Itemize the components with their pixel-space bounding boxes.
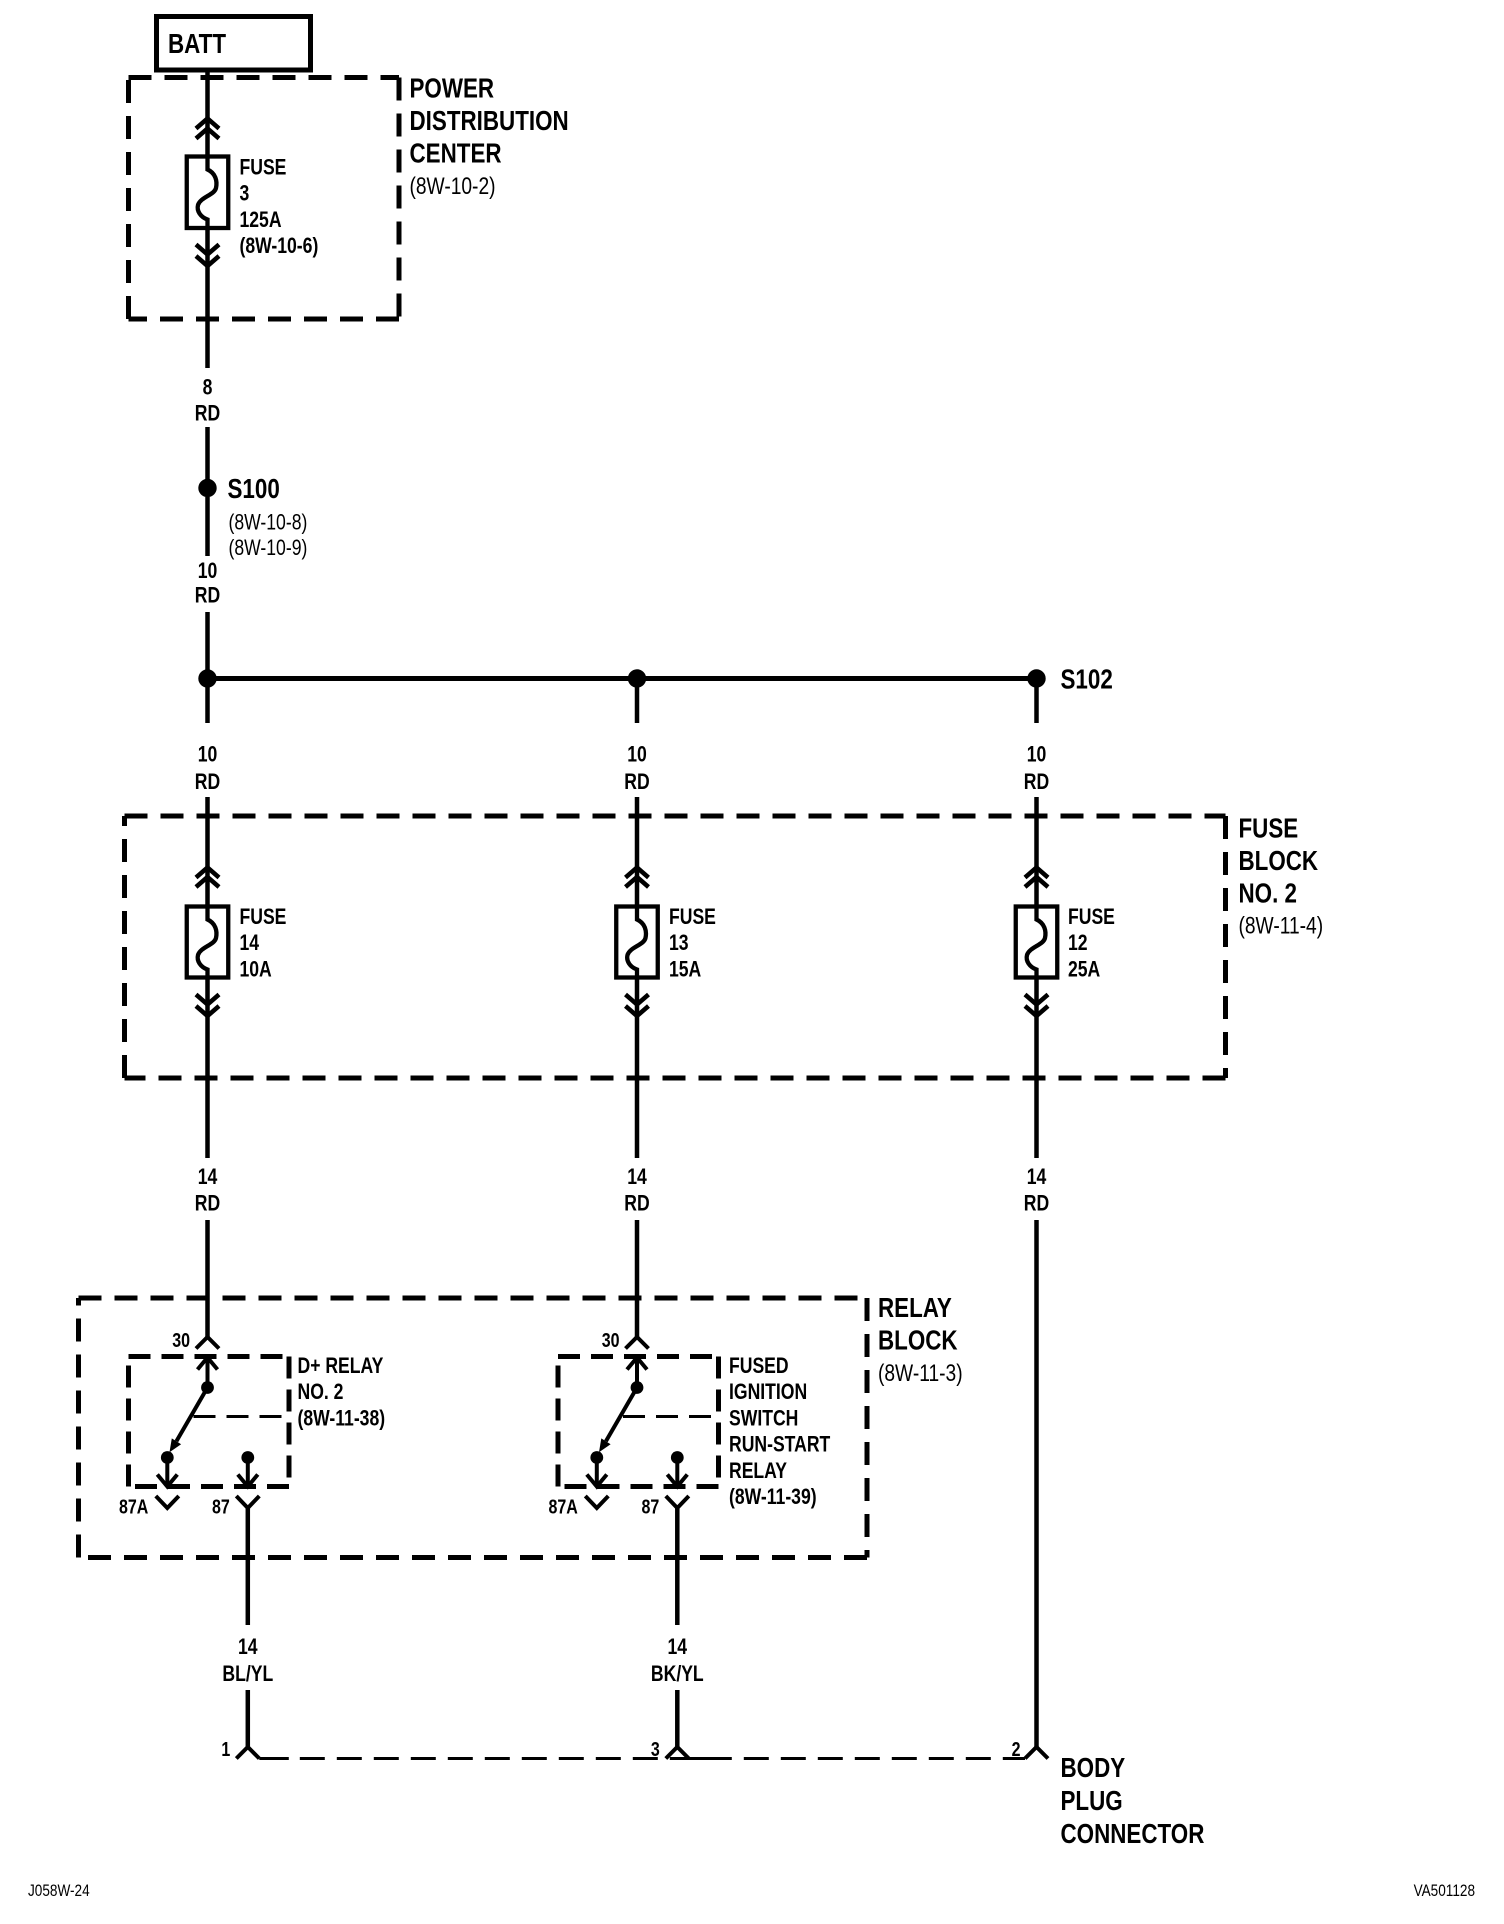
svg-text:RUN-START: RUN-START	[729, 1433, 830, 1457]
wire S100 to bus (10 RD)	[205, 497, 210, 556]
svg-text:FUSE: FUSE	[669, 905, 716, 929]
svg-text:14: 14	[240, 931, 260, 955]
svg-text:NO. 2: NO. 2	[1239, 878, 1297, 909]
body plug connector dashed outline	[259, 1757, 1025, 1760]
contact 87A node	[590, 1451, 603, 1464]
wire	[246, 1690, 251, 1747]
svg-text:8: 8	[203, 376, 213, 400]
fuse 13 15A	[616, 907, 658, 978]
relay switch arm (to 87A)	[170, 1388, 208, 1453]
wire	[205, 427, 210, 480]
connector chevrons into fuse block	[626, 868, 649, 888]
pin 30 connector chevron	[196, 1337, 219, 1349]
pin 87 arrow out	[667, 1458, 687, 1487]
contact 87A node	[161, 1451, 174, 1464]
svg-text:87: 87	[212, 1496, 230, 1518]
fuse block no. 2	[125, 816, 1226, 1078]
svg-text:15A: 15A	[669, 958, 701, 982]
label FUSE 12 25A	[1068, 905, 1115, 982]
pin 87 connector chevron	[236, 1496, 259, 1508]
label FUSE 3 125A (8W-10-6)	[240, 156, 319, 259]
svg-text:FUSE: FUSE	[240, 156, 287, 180]
svg-text:RELAY: RELAY	[878, 1293, 952, 1324]
fuse 14 10A	[187, 907, 229, 978]
svg-text:RELAY: RELAY	[729, 1459, 787, 1483]
connector chevrons into PDC	[196, 119, 219, 139]
connector chevrons into fuse block	[1025, 868, 1048, 888]
wire	[1034, 797, 1039, 907]
wire label 14 BL/YL	[222, 1635, 273, 1686]
connector chevrons out of fuse block	[626, 995, 649, 1017]
svg-text:10: 10	[198, 559, 218, 583]
body plug connector pin 3	[651, 1738, 689, 1760]
svg-text:14: 14	[627, 1165, 647, 1189]
label RELAY BLOCK (8W-11-3)	[878, 1293, 963, 1387]
svg-text:D+ RELAY: D+ RELAY	[298, 1354, 384, 1378]
svg-text:1: 1	[221, 1738, 230, 1760]
svg-text:SWITCH: SWITCH	[729, 1407, 798, 1431]
label FUSE 14 10A	[240, 905, 287, 982]
connector BATT (battery feed)	[157, 17, 311, 71]
svg-text:PLUG: PLUG	[1061, 1786, 1123, 1817]
svg-text:87A: 87A	[119, 1496, 148, 1518]
svg-text:14: 14	[198, 1165, 218, 1189]
svg-text:BLOCK: BLOCK	[1239, 846, 1319, 877]
svg-text:RD: RD	[195, 584, 220, 608]
svg-text:25A: 25A	[1068, 958, 1100, 982]
wire label 10 RD	[195, 743, 220, 795]
svg-text:RD: RD	[195, 1192, 220, 1216]
contact 87 node	[671, 1451, 684, 1464]
svg-text:125A: 125A	[240, 208, 282, 232]
label FUSE 13 15A	[669, 905, 716, 982]
svg-text:(8W-11-38): (8W-11-38)	[298, 1407, 386, 1431]
svg-text:10: 10	[1027, 743, 1047, 767]
splice S100	[198, 479, 216, 497]
svg-text:CONNECTOR: CONNECTOR	[1061, 1819, 1205, 1850]
svg-text:(8W-10-6): (8W-10-6)	[240, 234, 319, 258]
svg-text:87A: 87A	[548, 1496, 577, 1518]
wire label 14 BK/YL	[651, 1635, 704, 1686]
wire	[635, 797, 640, 907]
fuse 12 25A	[1016, 907, 1058, 978]
svg-text:3: 3	[240, 182, 250, 206]
svg-text:RD: RD	[1024, 1192, 1049, 1216]
svg-text:CENTER: CENTER	[410, 138, 502, 169]
body plug connector pin 1	[221, 1738, 259, 1760]
svg-text:FUSE: FUSE	[240, 905, 287, 929]
wire label 10 RD	[624, 743, 649, 795]
svg-text:10A: 10A	[240, 958, 272, 982]
relay common node	[631, 1381, 644, 1394]
wire label 14 RD	[624, 1165, 649, 1216]
wire label 10 RD	[195, 559, 220, 608]
pin 87A arrow out	[587, 1458, 607, 1487]
wire label 10 RD	[1024, 743, 1049, 795]
wire fuse 3 to S100 (8 RD)	[205, 228, 210, 368]
wire to relay 1 pin 30	[205, 1220, 210, 1337]
label BODY PLUG CONNECTOR	[1061, 1753, 1205, 1850]
wire label 14 RD	[1024, 1165, 1049, 1216]
wire to relay 2 pin 30	[635, 1220, 640, 1337]
wire bus to fuse block (middle, 10 RD)	[635, 687, 640, 723]
svg-text:10: 10	[627, 743, 647, 767]
svg-text:BLOCK: BLOCK	[878, 1325, 958, 1356]
relay coil actuation dashed line	[194, 1415, 290, 1418]
label POWER DISTRIBUTION CENTER (8W-10-2)	[410, 73, 569, 199]
svg-text:14: 14	[668, 1635, 688, 1659]
svg-text:FUSE: FUSE	[1239, 813, 1299, 844]
svg-text:(8W-11-4): (8W-11-4)	[1239, 911, 1324, 939]
svg-text:14: 14	[238, 1635, 258, 1659]
svg-text:30: 30	[602, 1329, 620, 1351]
junction (left)	[198, 669, 216, 687]
svg-text:FUSED: FUSED	[729, 1354, 789, 1378]
fuse 3 125A	[187, 157, 229, 229]
svg-text:30: 30	[172, 1329, 190, 1351]
wire	[675, 1690, 680, 1747]
junction (middle)	[628, 669, 646, 687]
relay switch arm (to 87A)	[599, 1388, 637, 1453]
pin 30 connector chevron	[626, 1337, 649, 1349]
svg-text:RD: RD	[1024, 770, 1049, 794]
wire	[205, 612, 210, 679]
svg-text:10: 10	[198, 743, 218, 767]
svg-text:12: 12	[1068, 931, 1088, 955]
pin 87A connector chevron	[585, 1496, 608, 1508]
wire fuse 14 down (14 RD)	[205, 978, 210, 1159]
svg-text:(8W-11-39): (8W-11-39)	[729, 1485, 817, 1509]
svg-text:BODY: BODY	[1061, 1753, 1126, 1784]
pin 87 arrow out	[238, 1458, 258, 1487]
svg-text:J058W-24: J058W-24	[28, 1882, 90, 1901]
relay inner dashed box	[558, 1357, 719, 1487]
label FUSE BLOCK NO. 2 (8W-11-4)	[1239, 813, 1324, 939]
relay block	[79, 1298, 868, 1558]
relay coil actuation dashed line	[623, 1415, 719, 1418]
wire BATT to fuse 3	[205, 70, 210, 157]
pin 30 arrow into relay	[627, 1358, 647, 1388]
relay name label	[298, 1354, 386, 1431]
label S100 (8W-10-8) (8W-10-9)	[228, 474, 308, 561]
splice S102	[1027, 669, 1045, 687]
svg-text:RD: RD	[624, 770, 649, 794]
svg-text:13: 13	[669, 931, 689, 955]
relay name label	[729, 1354, 830, 1509]
svg-text:S102: S102	[1061, 664, 1113, 695]
svg-text:87: 87	[641, 1496, 659, 1518]
relay common node	[201, 1381, 214, 1394]
connector chevrons out of fuse block	[196, 995, 219, 1017]
connector chevrons out of PDC	[196, 245, 219, 267]
pin 87 connector chevron	[666, 1496, 689, 1508]
svg-text:RD: RD	[195, 402, 220, 426]
svg-text:S100: S100	[228, 474, 280, 505]
svg-text:IGNITION: IGNITION	[729, 1380, 807, 1404]
bus wire to S102	[208, 676, 1037, 681]
wire fuse 12 down (14 RD)	[1034, 978, 1039, 1159]
wire bus to fuse block (right, 10 RD)	[1034, 687, 1039, 723]
svg-text:(8W-10-2): (8W-10-2)	[410, 172, 496, 200]
pin 87A arrow out	[157, 1458, 177, 1487]
power distribution center block	[129, 78, 400, 320]
wire	[205, 797, 210, 907]
svg-text:(8W-10-9): (8W-10-9)	[229, 536, 308, 560]
wire fuse 12 to body plug connector pin 2	[1034, 1220, 1039, 1747]
wire relay 2 pin 87 down (14 BK/YL)	[675, 1508, 680, 1625]
svg-text:VA501128: VA501128	[1414, 1882, 1475, 1901]
svg-text:BK/YL: BK/YL	[651, 1662, 704, 1686]
svg-text:(8W-11-3): (8W-11-3)	[878, 1359, 963, 1387]
svg-text:14: 14	[1027, 1165, 1047, 1189]
svg-text:RD: RD	[624, 1192, 649, 1216]
svg-text:(8W-10-8): (8W-10-8)	[229, 511, 308, 535]
svg-text:RD: RD	[195, 770, 220, 794]
wire relay 1 pin 87 down (14 BL/YL)	[246, 1508, 251, 1625]
svg-text:DISTRIBUTION: DISTRIBUTION	[410, 106, 569, 137]
svg-text:POWER: POWER	[410, 73, 495, 104]
svg-text:NO. 2: NO. 2	[298, 1380, 344, 1404]
pin 30 arrow into relay	[198, 1358, 218, 1388]
connector chevrons out of fuse block	[1025, 995, 1048, 1017]
svg-text:BL/YL: BL/YL	[222, 1662, 273, 1686]
svg-text:BATT: BATT	[168, 29, 226, 60]
wire fuse 13 down (14 RD)	[635, 978, 640, 1159]
connector chevrons into fuse block	[196, 868, 219, 888]
pin 87A connector chevron	[156, 1496, 179, 1508]
svg-text:FUSE: FUSE	[1068, 905, 1115, 929]
wire label 8 RD	[195, 376, 220, 426]
relay inner dashed box	[129, 1357, 290, 1487]
contact 87 node	[241, 1451, 254, 1464]
wire bus to fuse block (left, 10 RD)	[205, 687, 210, 723]
wire label 14 RD	[195, 1165, 220, 1216]
body plug connector pin 2	[1012, 1738, 1048, 1760]
